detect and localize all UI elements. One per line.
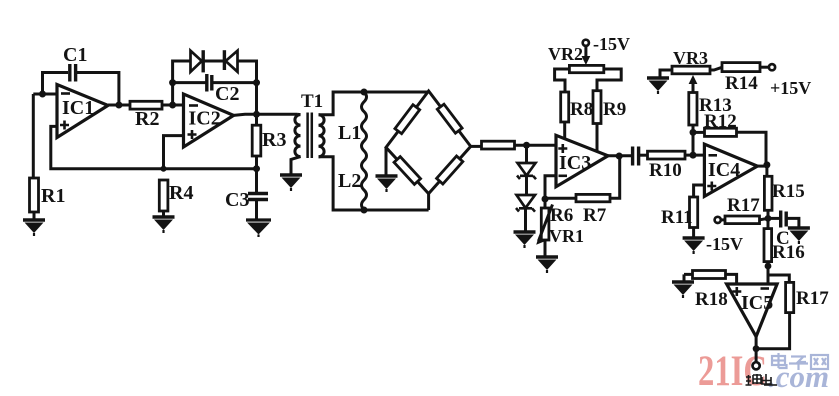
svg-text:T1: T1	[301, 91, 323, 112]
svg-text:R7: R7	[583, 205, 607, 226]
svg-text:IC3: IC3	[559, 152, 591, 174]
svg-text:R8: R8	[570, 99, 593, 120]
svg-text:IC4: IC4	[708, 159, 740, 181]
svg-text:IC1: IC1	[62, 97, 94, 119]
svg-text:VR1: VR1	[549, 226, 584, 246]
svg-text:R18: R18	[695, 289, 728, 310]
svg-text:L1: L1	[338, 122, 361, 144]
svg-text:C2: C2	[215, 83, 239, 105]
svg-text:-15V: -15V	[706, 234, 743, 254]
svg-text:R4: R4	[169, 182, 193, 204]
svg-text:R15: R15	[772, 181, 805, 202]
svg-text:R10: R10	[649, 160, 682, 181]
svg-text:C1: C1	[63, 44, 87, 66]
svg-text:R14: R14	[725, 73, 758, 94]
svg-text:R11: R11	[661, 207, 693, 228]
svg-text:R17: R17	[796, 288, 829, 309]
svg-text:-15V: -15V	[593, 34, 630, 54]
svg-text:R1: R1	[41, 185, 65, 207]
svg-text:R6: R6	[550, 205, 573, 226]
svg-text:VR2: VR2	[548, 44, 583, 64]
svg-text:.com: .com	[768, 359, 829, 394]
svg-text:R9: R9	[603, 99, 626, 120]
svg-text:IC2: IC2	[189, 108, 221, 130]
svg-text:R3: R3	[262, 129, 286, 151]
svg-text:L2: L2	[338, 170, 361, 192]
svg-text:C3: C3	[225, 189, 249, 211]
svg-text:+15V: +15V	[770, 78, 811, 98]
svg-text:R16: R16	[772, 242, 805, 263]
svg-text:R17: R17	[727, 195, 760, 216]
svg-text:IC5: IC5	[741, 292, 773, 314]
svg-text:R2: R2	[135, 108, 159, 130]
